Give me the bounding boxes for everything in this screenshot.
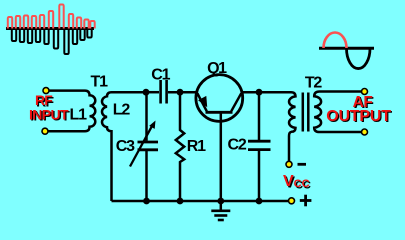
- svg-text:T1: T1: [91, 74, 109, 91]
- svg-text:L1: L1: [70, 106, 88, 123]
- svg-text:C3: C3: [116, 138, 135, 155]
- svg-text:C2: C2: [228, 136, 247, 153]
- svg-text:R1: R1: [187, 138, 206, 155]
- svg-text:L2: L2: [113, 101, 131, 118]
- svg-text:T2: T2: [305, 75, 323, 92]
- svg-text:OUTPUT: OUTPUT: [326, 108, 391, 125]
- svg-text:C1: C1: [151, 67, 170, 84]
- svg-text:INPUT: INPUT: [29, 106, 69, 122]
- svg-text:Q1: Q1: [207, 60, 227, 77]
